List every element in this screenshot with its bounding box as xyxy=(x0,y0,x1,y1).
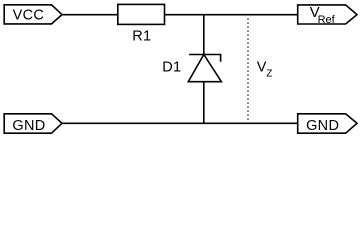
wire R1 to VRef port xyxy=(165,14,298,16)
wire node to diode cathode xyxy=(203,15,205,55)
svg-text:Ref: Ref xyxy=(318,14,336,26)
svg-text:D1: D1 xyxy=(162,59,181,75)
port VRef xyxy=(298,5,357,26)
svg-text:R1: R1 xyxy=(132,29,151,45)
port VCC xyxy=(4,5,62,24)
svg-text:Z: Z xyxy=(266,68,272,79)
svg-text:GND: GND xyxy=(12,118,45,134)
port GND right xyxy=(298,114,357,134)
zener diode D1 xyxy=(162,55,221,82)
wire VCC to R1 xyxy=(62,14,118,16)
resistor R1 xyxy=(118,4,165,44)
bottom GND rail wire xyxy=(62,122,298,124)
wire diode anode to GND rail xyxy=(203,82,205,124)
port GND left xyxy=(4,114,62,134)
measurement dotted line VZ xyxy=(248,19,272,124)
svg-text:GND: GND xyxy=(306,118,339,134)
svg-text:VCC: VCC xyxy=(13,7,45,23)
